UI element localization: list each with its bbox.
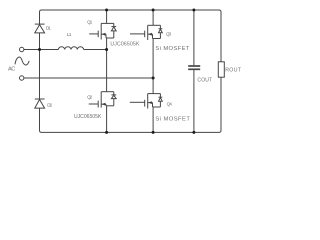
svg-text:ROUT: ROUT	[225, 68, 242, 74]
svg-text:Q2: Q2	[87, 95, 93, 100]
svg-text:Si MOSFET: Si MOSFET	[155, 116, 190, 122]
svg-text:COUT: COUT	[197, 77, 212, 83]
svg-text:D2: D2	[47, 102, 52, 107]
svg-text:Q1: Q1	[87, 19, 93, 24]
svg-text:Q3: Q3	[166, 32, 172, 37]
svg-text:D1: D1	[46, 26, 51, 31]
svg-text:UJC06505K: UJC06505K	[74, 114, 102, 120]
svg-text:UJC06505K: UJC06505K	[110, 41, 140, 47]
svg-text:Si MOSFET: Si MOSFET	[155, 46, 189, 52]
svg-text:Q4: Q4	[167, 102, 173, 107]
svg-text:L1: L1	[67, 32, 72, 38]
svg-text:AC: AC	[8, 67, 15, 73]
